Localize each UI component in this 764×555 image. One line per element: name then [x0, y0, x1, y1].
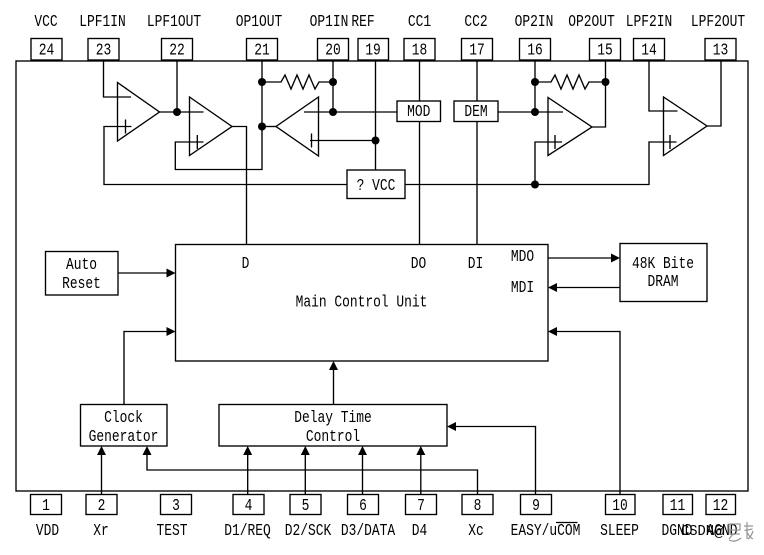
op-amp U2a plus mark [311, 134, 313, 148]
pin box 10 [606, 495, 636, 515]
svg-text:D: D [242, 255, 250, 274]
svg-text:3: 3 [172, 497, 180, 516]
svg-text:Delay Time: Delay Time [294, 409, 372, 428]
svg-text:19: 19 [365, 42, 381, 61]
svg-text:Control: Control [306, 428, 360, 447]
wire pin18 CC1 through MOD to MCU DO [419, 60, 421, 245]
wire U4 output to pin13 LPF2OUT [707, 60, 721, 126]
svg-text:LPF2OUT: LPF2OUT [691, 13, 745, 32]
modulator MOD [397, 101, 441, 122]
top pin boxes [31, 39, 736, 61]
Delay Time Control block [219, 405, 447, 447]
op-amp U4 [664, 97, 708, 156]
svg-text:CSDN: CSDN [681, 524, 714, 540]
wire pin19 REF to half-VCC box [375, 60, 377, 170]
pin box 23 [88, 39, 119, 61]
svg-text:17: 17 [469, 42, 485, 61]
svg-text:D1/REQ: D1/REQ [224, 522, 271, 541]
svg-text:6: 6 [359, 497, 367, 516]
bottom pin boxes [31, 495, 736, 515]
svg-text:MOD: MOD [407, 103, 430, 122]
svg-text:CC1: CC1 [408, 13, 431, 32]
wire pin10 SLEEP to MCU [556, 332, 620, 495]
svg-text:4: 4 [245, 497, 253, 516]
wire pin6 D3/DATA to Delay Time Control [362, 454, 364, 495]
svg-text:22: 22 [169, 42, 185, 61]
svg-text:TEST: TEST [157, 522, 188, 541]
svg-text:Xc: Xc [468, 522, 484, 541]
wire U1 output to U2 inverting input [160, 111, 204, 113]
wire MCU MDO to DRAM [548, 257, 612, 259]
pin box 7 [406, 495, 437, 515]
wire Auto Reset to MCU [118, 272, 168, 274]
wire U2 feedback to + input [175, 127, 262, 170]
wire pin21 OP1OUT [261, 60, 263, 127]
wire pin23 to op-amp U1 inverting input [104, 60, 132, 97]
svg-text:OP1IN: OP1IN [310, 13, 349, 32]
svg-text:2: 2 [98, 497, 106, 516]
svg-text:LPF2IN: LPF2IN [626, 13, 673, 32]
wire pin7 D4 to Delay Time Control [420, 454, 422, 495]
svg-text:Reset: Reset [62, 275, 101, 294]
Main Control Unit block [176, 245, 549, 362]
svg-text:23: 23 [96, 42, 112, 61]
svg-text:Auto: Auto [66, 256, 97, 275]
pin box 2 [86, 495, 117, 515]
svg-text:DO: DO [411, 255, 427, 274]
svg-text:D3/DATA: D3/DATA [341, 522, 396, 541]
svg-text:LPF1IN: LPF1IN [79, 13, 126, 32]
svg-text:LPF1OUT: LPF1OUT [147, 13, 201, 32]
svg-text:DRAM: DRAM [648, 273, 679, 292]
svg-text:1: 1 [42, 497, 50, 516]
half VCC reference box [347, 170, 405, 199]
overline over COM of uCOM [556, 522, 578, 524]
op-amp U1 plus mark [125, 120, 127, 134]
svg-text:? VCC: ? VCC [357, 177, 396, 196]
wire U2 output to MCU D input [232, 127, 247, 245]
wire pin2 Xr to Clock Generator [101, 454, 103, 495]
wire pin14 LPF2IN to U4 inverting input [649, 60, 678, 111]
pin box 8 [462, 495, 493, 515]
Clock Generator block [81, 405, 168, 447]
svg-text:VCC: VCC [34, 13, 57, 32]
op-amp U3 [548, 98, 592, 156]
svg-text:MDI: MDI [511, 279, 534, 298]
arrowheads [97, 254, 620, 456]
pin box 14 [634, 39, 665, 61]
junction dots [173, 78, 610, 189]
wire U3 output to pin15 OP2OUT [592, 82, 606, 127]
svg-text:@: @ [714, 524, 724, 541]
wire pin4 D1/REQ to Delay Time Control [247, 454, 249, 495]
top pin name labels [34, 13, 745, 32]
wire pin15 OP2OUT [605, 60, 607, 82]
svg-text:OP1OUT: OP1OUT [236, 13, 283, 32]
wire pin5 D2/SCK to Delay Time Control [304, 454, 306, 495]
wire U2a output to node [262, 126, 276, 128]
block boxes [46, 101, 708, 446]
svg-text:7: 7 [417, 497, 425, 516]
block texts [62, 103, 694, 447]
svg-text:14: 14 [641, 42, 657, 61]
pin box 5 [290, 495, 321, 515]
pin box 13 [705, 39, 736, 61]
pin box 11 [663, 495, 693, 515]
pin box 19 [358, 39, 389, 61]
svg-text:CC2: CC2 [464, 13, 487, 32]
svg-text:13: 13 [713, 42, 729, 61]
svg-text:D4: D4 [412, 522, 428, 541]
svg-text:EASY/uCOM: EASY/uCOM [511, 522, 581, 541]
svg-text:OP2IN: OP2IN [515, 13, 554, 32]
pin box 20 [318, 39, 349, 61]
svg-text:15: 15 [597, 42, 613, 61]
svg-text:Main Control Unit: Main Control Unit [296, 294, 428, 313]
wire pin17 CC2 through DEM to MCU DI [476, 60, 478, 245]
resistor R1 [262, 75, 333, 89]
pin box 1 [31, 495, 62, 515]
svg-text:18: 18 [412, 42, 428, 61]
pin box 9 [521, 495, 552, 515]
wire pin20 OP1IN [332, 60, 334, 112]
pin numbers bottom [42, 497, 728, 516]
svg-text:12: 12 [713, 497, 729, 516]
wire half-VCC rail to op-amp + inputs [104, 127, 677, 185]
wire REF node to U2a + input [310, 140, 376, 142]
op-amp U2 [190, 97, 233, 156]
wire pin16 OP2IN [534, 60, 536, 112]
pin box 17 [462, 39, 493, 61]
svg-text:24: 24 [39, 42, 55, 61]
svg-text:VDD: VDD [36, 522, 59, 541]
svg-text:Generator: Generator [89, 428, 159, 447]
pin box 3 [161, 495, 192, 515]
svg-text:MDO: MDO [511, 248, 534, 267]
svg-text:SLEEP: SLEEP [600, 522, 639, 541]
svg-text:9: 9 [532, 497, 540, 516]
wire pin8 Xc to Clock Generator [147, 454, 478, 495]
wire Clock Generator to MCU [124, 332, 168, 405]
op-amp U4 plus mark [669, 135, 671, 149]
svg-text:16: 16 [527, 42, 543, 61]
IC outline [16, 61, 748, 491]
pin box 15 [590, 39, 621, 61]
wire pin22 LPF1OUT [176, 60, 178, 112]
svg-text:11: 11 [670, 497, 686, 516]
pin box 18 [404, 39, 435, 61]
pin box 16 [520, 39, 551, 61]
bottom pin name labels [36, 522, 738, 541]
demodulator DEM [454, 101, 498, 122]
op-amp U2 plus mark [196, 135, 198, 149]
wire Delay Time Control to MCU [333, 369, 335, 405]
op-amp U2a (left facing) [276, 97, 319, 156]
watermark CSDN [681, 524, 724, 541]
svg-text:Clock: Clock [104, 409, 143, 428]
wire DEM to U3 inverting input [498, 111, 563, 113]
resistor R2 [535, 75, 606, 89]
Auto Reset block [46, 252, 119, 296]
wire pin9 EASY/uCOM to Delay Time Control [456, 427, 536, 495]
svg-text:D2/SCK: D2/SCK [285, 522, 332, 541]
48K Bite DRAM block [620, 244, 707, 302]
svg-text:Xr: Xr [93, 522, 109, 541]
svg-text:21: 21 [254, 42, 270, 61]
pin box 21 [247, 39, 278, 61]
svg-text:10: 10 [612, 497, 628, 516]
wire half-VCC branch to U3 + input [535, 142, 562, 185]
op-amp U1 [118, 83, 160, 142]
pin numbers top [39, 42, 729, 61]
pin box 24 [31, 39, 62, 61]
svg-text:48K Bite: 48K Bite [632, 255, 694, 274]
svg-text:8: 8 [474, 497, 482, 516]
svg-text:REF: REF [351, 13, 374, 32]
svg-text:DEM: DEM [464, 103, 487, 122]
watermark CJK glyph strokes [729, 522, 753, 541]
svg-text:20: 20 [325, 42, 341, 61]
pin box 4 [233, 495, 264, 515]
wire DRAM to MCU MDI [556, 287, 620, 289]
op-amp U3 plus mark [554, 135, 556, 149]
svg-text:OP2OUT: OP2OUT [568, 13, 615, 32]
svg-text:DI: DI [468, 255, 484, 274]
pin box 12 [706, 495, 736, 515]
pin box 6 [348, 495, 379, 515]
svg-text:5: 5 [302, 497, 310, 516]
wire U2a inverting input to MOD [304, 111, 397, 113]
pin box 22 [162, 39, 193, 61]
